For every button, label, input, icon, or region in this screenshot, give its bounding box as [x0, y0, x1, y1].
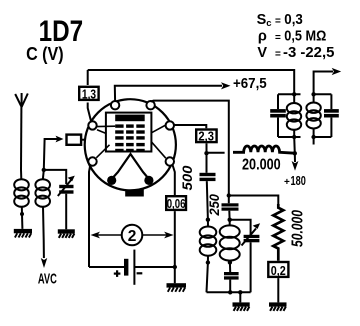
node antenna secondary top: [42, 168, 46, 172]
grid cap connector: [67, 135, 82, 145]
wire node B to R2: [229, 196, 278, 209]
svg-text:20.000: 20.000: [242, 157, 281, 174]
wire +67,5: [115, 86, 222, 102]
filament pin dot left: [107, 176, 116, 185]
ground G2: [58, 229, 75, 238]
IF transformer secondary tank: [312, 94, 331, 137]
filament: [112, 154, 149, 179]
tube V1 1D7 envelope: [85, 99, 176, 190]
ground G1: [14, 229, 32, 238]
value box 2,3: [196, 130, 216, 143]
wire pin3 to 2,3 box: [174, 125, 206, 128]
top wire to transformer: [88, 70, 295, 94]
wire box 0,06 down: [174, 211, 176, 283]
pin link right upper: [151, 125, 165, 133]
coil L5: [287, 103, 301, 130]
resistor R2 50.000: [273, 204, 283, 261]
oscillator top rail: [230, 220, 251, 235]
oscillator coil L4: [220, 220, 240, 263]
wire pin6 to right vertical: [173, 165, 175, 195]
pin 1 top-left: [111, 101, 119, 109]
svg-text:+67,5: +67,5: [233, 76, 267, 92]
wire pin to 1,3 box: [88, 103, 92, 123]
wire to ground G3: [239, 292, 241, 302]
oscillator bottom rail: [207, 291, 251, 293]
dimension arrows circled 2: [91, 225, 174, 246]
coil L6: [306, 103, 320, 129]
arrow +67,5: [221, 82, 231, 89]
svg-text:0,2: 0,2: [271, 264, 286, 278]
svg-text:+: +: [284, 177, 290, 188]
coil L1 antenna primary: [14, 170, 29, 229]
antenna: [15, 93, 28, 170]
wire L4 to C4: [229, 263, 231, 273]
node L1 bottom: [20, 212, 24, 216]
tube internal rect: [106, 113, 151, 152]
wire secondary output: [314, 72, 333, 95]
wire secondary bottom stub: [313, 137, 315, 145]
svg-text:0,06: 0,06: [167, 197, 186, 211]
arrow into grid cap: [56, 136, 64, 143]
wire L3 to bottom rail: [207, 263, 208, 293]
capacitor C 500: [200, 173, 216, 220]
wire to grid cap: [44, 139, 59, 170]
arrow AVC: [41, 258, 47, 268]
trimmer cap C6: [324, 109, 339, 113]
pin link left lower: [96, 145, 109, 158]
filament pin dot right: [144, 176, 153, 185]
capacitor C4: [224, 272, 239, 292]
wire primary bottom to +180: [293, 137, 296, 153]
wire box to ground G5: [277, 278, 279, 302]
variable capacitor VC2: [242, 223, 261, 292]
node B: [227, 193, 231, 197]
wire box to node A: [206, 143, 208, 173]
IF transformer primary tank: [278, 94, 301, 137]
pin 6 right-lower: [166, 157, 174, 165]
capacitor C 250: [222, 203, 239, 222]
base key: [125, 190, 144, 197]
wire pin5 to left vertical: [89, 165, 90, 267]
battery B1: [89, 250, 175, 285]
value box 0,2: [268, 262, 288, 277]
svg-text:C (V): C (V): [26, 43, 64, 64]
wire node to tuning cap VC1: [44, 170, 66, 184]
anode bar: [115, 115, 145, 122]
svg-text:180: 180: [291, 173, 306, 188]
grid dashes: [115, 124, 145, 152]
resistor R1 20.000: [233, 146, 295, 153]
value box 0,06: [166, 196, 186, 210]
svg-text:AVC: AVC: [38, 271, 57, 288]
svg-text:2: 2: [128, 228, 137, 245]
resistor R1 20.000 lead left: [207, 152, 225, 154]
wire pin4 to line B: [151, 101, 229, 204]
arrow output: [332, 68, 342, 75]
pin link right lower: [151, 142, 165, 158]
ground G5: [269, 302, 287, 311]
pin 3 left-upper: [88, 121, 96, 129]
ground G3: [233, 302, 250, 311]
svg-text:500: 500: [180, 165, 195, 191]
node battery right: [173, 265, 177, 269]
pin 4 right-upper: [166, 121, 174, 129]
svg-text:2,3: 2,3: [198, 129, 214, 143]
coil L2 antenna secondary: [35, 170, 50, 258]
trimmer cap C5: [270, 109, 286, 113]
node A: [204, 151, 208, 155]
pin 5 left-lower: [88, 157, 96, 165]
oscillator coil L3: [200, 220, 217, 263]
variable capacitor VC1: [58, 176, 75, 230]
pin 2 top-right: [146, 101, 154, 109]
value box 1,3: [79, 87, 98, 100]
wire box to top rail: [87, 70, 89, 85]
svg-text:1,3: 1,3: [82, 87, 96, 101]
pin link left upper: [97, 125, 116, 127]
arrow +180: [292, 161, 299, 171]
pin link left mid: [97, 130, 107, 134]
svg-text:250: 250: [206, 194, 222, 217]
ground G4: [167, 283, 187, 292]
svg-text:50.000: 50.000: [290, 210, 307, 247]
